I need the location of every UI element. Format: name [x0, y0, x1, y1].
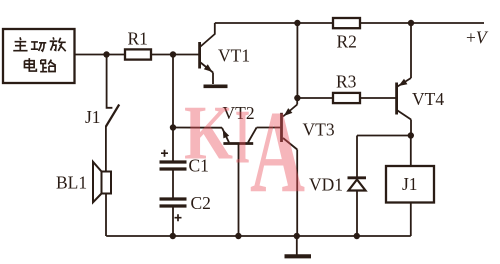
- transistor VT1: [200, 23, 215, 84]
- resistor R2: [333, 18, 360, 28]
- svg-text:K: K: [184, 90, 233, 176]
- wire: switch to speaker: [105, 126, 107, 172]
- wire: speaker to bottom rail: [105, 194, 107, 237]
- wire: VT2 collector to VT3 base: [257, 127, 281, 129]
- node G junction dot (C2 / bottom rail): [170, 233, 176, 239]
- wire: node B to VT1 base: [173, 54, 199, 56]
- wire: node C down to node E: [296, 23, 298, 98]
- relay J1 box: [386, 166, 434, 203]
- node I junction dot (VT3 collector / ground): [294, 233, 300, 239]
- capacitor C2: [160, 199, 187, 206]
- wire: amp box to node A: [75, 54, 107, 56]
- node C junction dot (rail / VT3 branch): [294, 20, 300, 26]
- wire: bottom rail: [106, 235, 411, 237]
- node J junction dot (VD1 / bottom rail): [354, 233, 360, 239]
- svg-text:VD1: VD1: [309, 175, 343, 195]
- svg-text:VT3: VT3: [303, 120, 335, 140]
- svg-text:+V: +V: [466, 28, 489, 48]
- wire: node A to R1: [107, 54, 126, 56]
- svg-text:C2: C2: [191, 193, 211, 213]
- wire: R3 to VT4 base: [360, 97, 396, 99]
- wire: node E to R3: [297, 97, 333, 99]
- transistor VT4: [397, 23, 411, 136]
- transistor VT2: [222, 128, 257, 237]
- svg-text:VT1: VT1: [218, 46, 250, 66]
- speaker BL1: [93, 162, 111, 203]
- C2 plus polarity mark: [175, 214, 182, 221]
- ground (VT1 emitter): [204, 85, 228, 89]
- wire: node F left to VD1: [357, 135, 411, 137]
- 路: [40, 60, 56, 72]
- wire: node F down to relay box: [410, 136, 412, 167]
- wire: R1 to node B: [151, 54, 173, 56]
- 电: [24, 58, 36, 71]
- svg-text:BL1: BL1: [56, 173, 87, 193]
- wire: C1 to C2: [172, 170, 174, 199]
- amplifier block text 主功放 / 电路 (hand-drawn CJK strokes): [13, 37, 65, 71]
- 功: [31, 42, 46, 51]
- node D junction dot (rail / VT4 emitter): [408, 20, 414, 26]
- svg-text:I: I: [235, 94, 250, 180]
- svg-text:VT4: VT4: [412, 89, 444, 109]
- wire: node K down to C1: [172, 128, 174, 162]
- svg-text:A: A: [250, 86, 305, 217]
- resistor R3: [333, 93, 360, 103]
- wire: down to VD1 cathode: [356, 136, 358, 178]
- resistor R1: [125, 49, 151, 59]
- wire: top supply rail: [215, 22, 484, 24]
- watermark KIA: [184, 86, 305, 217]
- svg-text:R2: R2: [337, 32, 357, 52]
- wire: relay box to bottom rail: [410, 203, 412, 237]
- svg-text:R1: R1: [128, 29, 148, 49]
- capacitor C1: [160, 162, 187, 169]
- node B junction dot: [170, 51, 176, 57]
- wire: node A down to switch J1: [107, 55, 113, 108]
- wire: VD1 anode down to bottom rail: [356, 191, 358, 237]
- ground (main): [285, 236, 312, 256]
- switch J1 blade: [106, 105, 119, 127]
- node F junction dot (VT4 collector / VD1 / relay J1): [408, 132, 414, 138]
- node H junction dot (VT2 base / bottom rail): [235, 233, 241, 239]
- amplifier block 主功放电路: [3, 29, 75, 83]
- node E junction dot (R3 / VT3 emitter): [294, 95, 300, 101]
- wire: node K to VT2 emitter: [173, 127, 222, 129]
- svg-text:R3: R3: [336, 72, 357, 92]
- diode VD1: [348, 178, 367, 191]
- svg-text:J1: J1: [85, 107, 101, 127]
- wire: C2 to bottom rail: [172, 207, 174, 236]
- svg-text:J1: J1: [402, 174, 418, 194]
- C1 plus polarity mark: [161, 150, 168, 157]
- wire: node B down to node K: [172, 55, 174, 128]
- 放: [50, 37, 66, 51]
- transistor VT3: [282, 98, 298, 236]
- node K junction dot (C1 / VT2 emitter wire): [170, 124, 176, 130]
- 主: [13, 37, 27, 50]
- node A junction dot: [103, 51, 109, 57]
